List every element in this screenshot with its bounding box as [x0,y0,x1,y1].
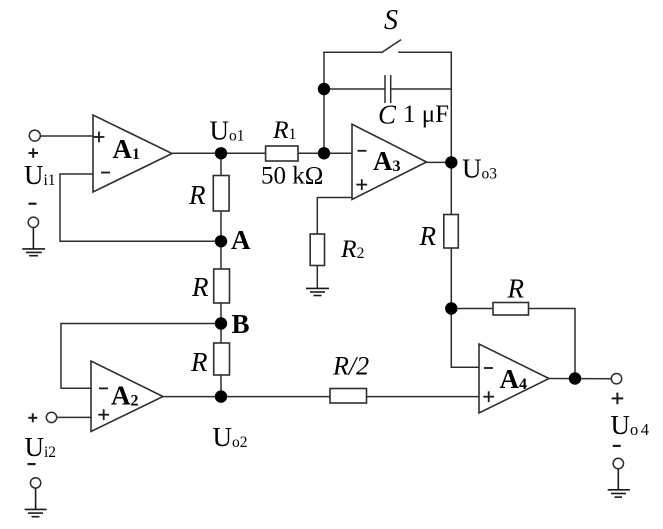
svg-text:R: R [507,273,525,303]
ground at R2 [306,288,329,295]
ground at Uo4 [608,469,630,498]
wire node to capacitor node riser [323,52,325,153]
wire Ui2 input to A2 noninverting [56,416,91,418]
wire A1 output row to A3 inverting input [172,152,352,154]
resistor R between node A and node B [214,269,230,303]
switch S [324,51,382,53]
node A4 feedback junction [445,302,457,314]
op-amp A2 [91,361,163,432]
capacitor C plates [384,76,386,103]
plus sign Ui2 [28,413,37,422]
wire A2 output through R/2 to A4 noninverting [163,396,479,398]
plus sign Uo4 [612,393,624,405]
wire main column Uo1 to Uo2 [220,153,222,396]
terminal Ui1 + [29,130,40,141]
svg-text:1 μF: 1 μF [403,101,449,128]
svg-text:A: A [231,225,251,255]
wire right riser switch to Uo3 [450,52,452,162]
wire Ui1 input to A1 noninverting [39,135,93,137]
svg-text:R: R [188,180,206,210]
wire Uo3 down through R to feedback node [450,162,452,308]
capacitor C wires [324,88,385,90]
svg-text:R: R [419,221,437,251]
terminal Ui1 - [28,217,38,227]
resistor R2 [310,234,324,266]
terminal Uo4 + [611,374,621,384]
ground at Ui1 [22,227,45,255]
resistor R below Uo3 [444,215,459,249]
wire A3 noninverting to R2 [317,198,352,235]
svg-text:R/2: R/2 [332,352,369,381]
node A [215,235,227,247]
node Uo1 [215,147,227,159]
wire A3 output to Uo3 [427,161,452,163]
minus sign Ui2 [28,463,36,465]
svg-text:R: R [190,347,208,377]
terminal Ui2 + [46,412,56,422]
ground at Ui2 [25,488,47,517]
wire feedback node through R to A4 output [451,309,575,379]
terminal Uo4 - [613,458,623,468]
wire node B feedback to A2 inverting [61,324,221,389]
node Uo2 [215,390,227,402]
svg-text:C: C [378,100,397,130]
node A3 input junction [318,147,330,159]
resistor R feedback of A4 [493,303,529,316]
svg-text:B: B [232,309,250,339]
svg-text:S: S [384,5,398,36]
op-amp A1 [93,115,172,192]
resistor R1 50 kOhm [266,146,298,161]
node Uo3 [445,156,457,168]
resistor R between Uo1 and node A [213,176,229,212]
wire A1 inverting feedback to node A [60,174,221,241]
wire A4 output to Uo4 terminal [549,378,612,380]
op-amp A4 [479,344,549,413]
minus sign Uo4 [613,445,621,447]
svg-text:50 kΩ: 50 kΩ [261,163,323,190]
node A4 output junction [569,372,581,384]
node capacitor left junction [318,83,330,95]
wire R2 to ground [316,266,318,289]
minus sign Ui1 [29,203,37,205]
plus sign Ui1 [29,148,39,158]
wire feedback node to A4 inverting [451,309,479,368]
resistor R/2 [330,389,367,404]
op-amp A3 [352,124,427,199]
resistor R between node B and Uo2 [214,343,230,375]
node B [215,317,227,329]
terminal Ui2 - [30,478,40,488]
svg-text:R: R [191,272,209,302]
